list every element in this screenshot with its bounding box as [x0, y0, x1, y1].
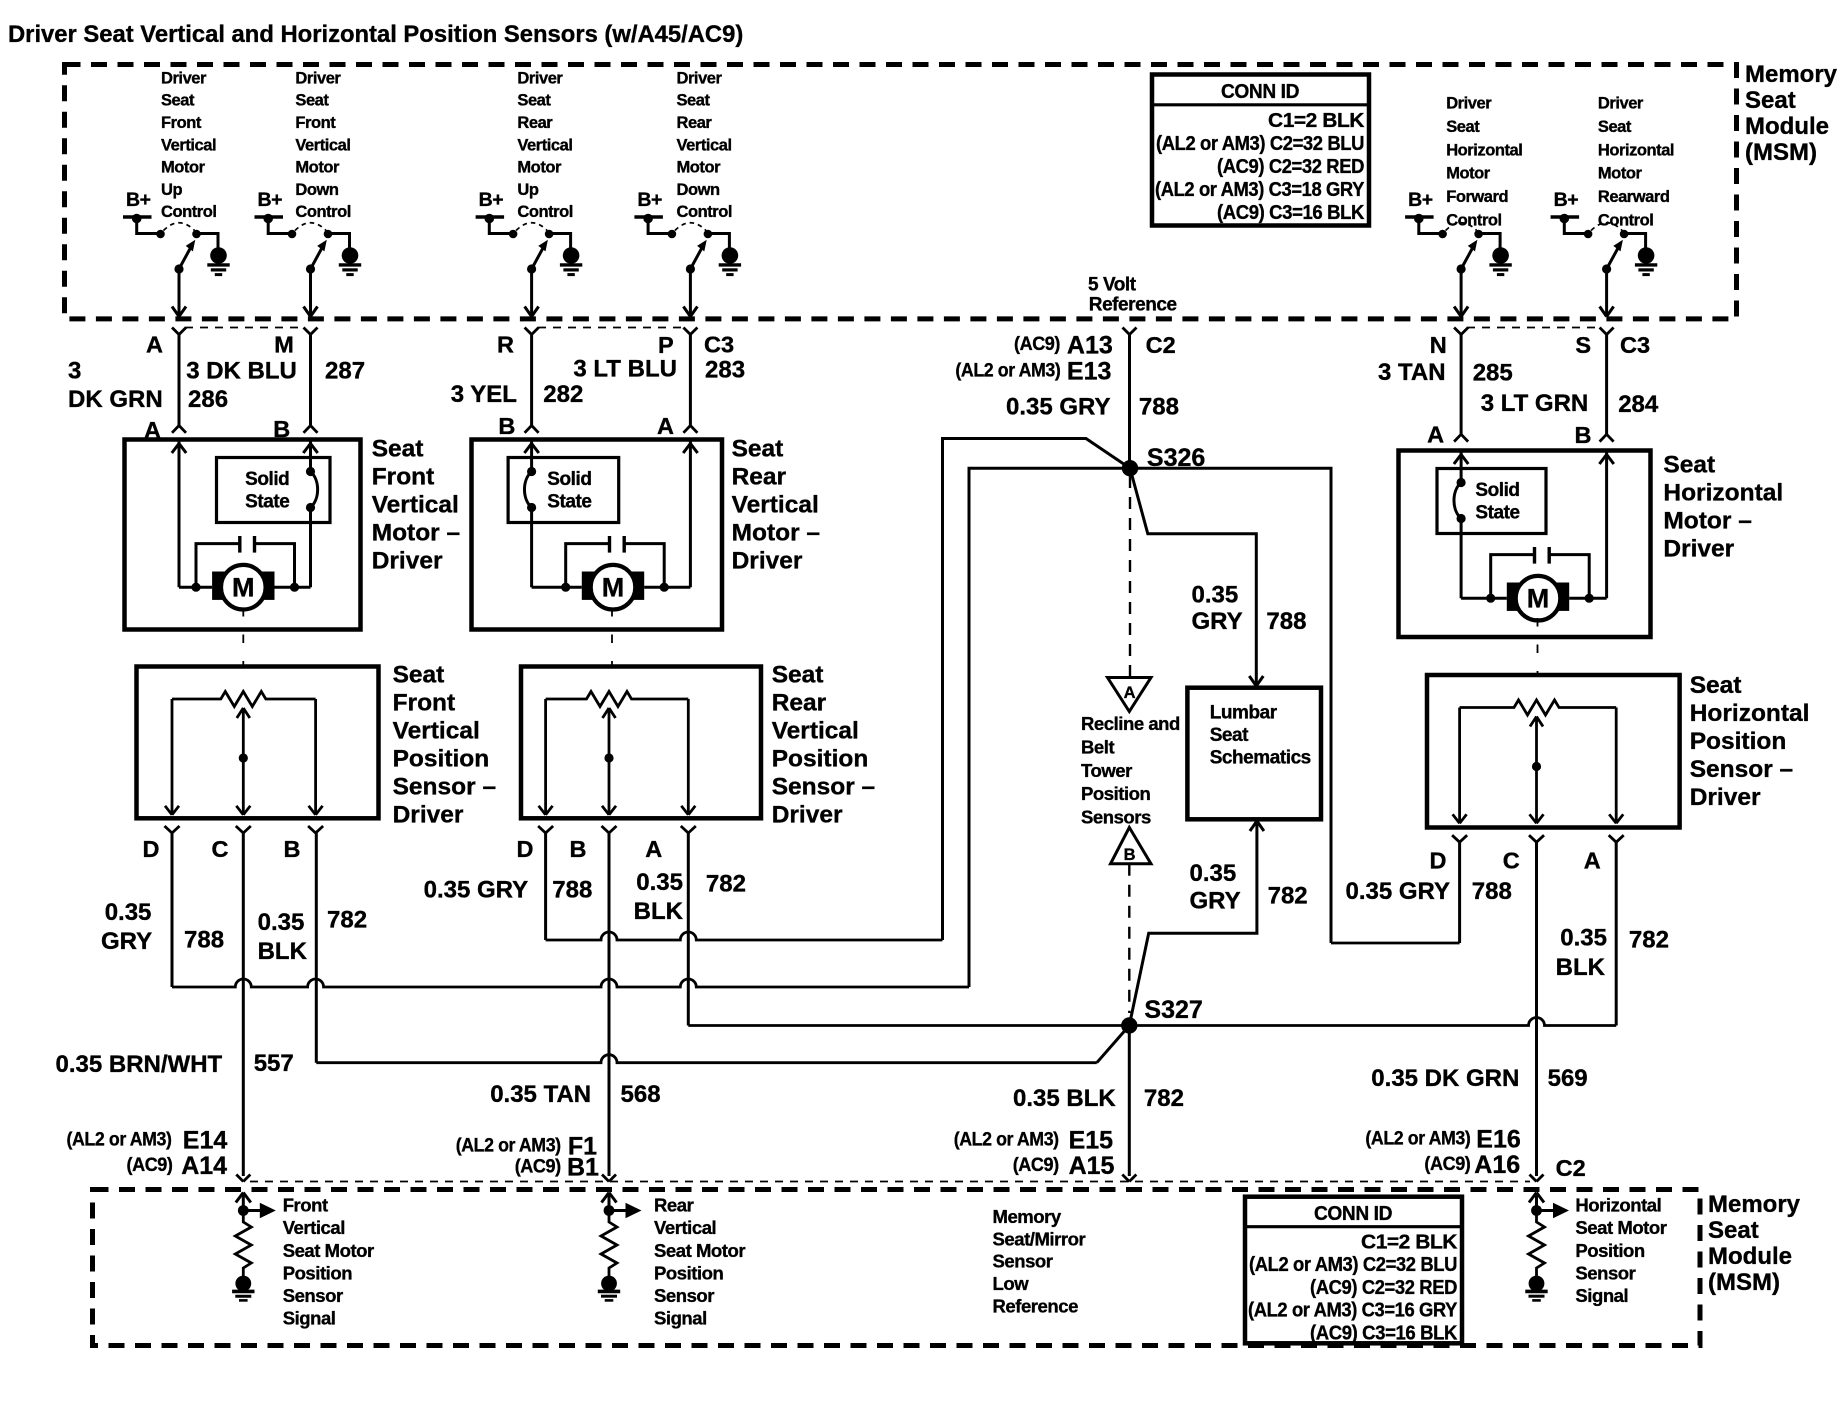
connector pin N at MSM [1430, 328, 1468, 359]
svg-text:Up: Up [517, 181, 538, 199]
svg-text:A: A [1124, 684, 1136, 702]
dashed throw arc (driver seat horizontal motor rearward control) [1591, 223, 1622, 231]
wire: sensor low lead (Seat Front Vertical Position Sensor - Driver) [309, 699, 323, 815]
sensor connector pin B (x=315.6) [284, 826, 324, 862]
svg-text:Seat Motor: Seat Motor [283, 1240, 374, 1261]
svg-text:Solid: Solid [547, 469, 591, 490]
connector face dashed line C3 (left pair) [185, 327, 304, 329]
svg-text:0.35 BLK: 0.35 BLK [1013, 1085, 1116, 1112]
B+ power terminal (driver seat front vertical motor down control) [255, 189, 284, 223]
label column for switch 3 [517, 69, 573, 221]
svg-text:Belt: Belt [1081, 737, 1114, 758]
wire: BLK 782 S327 to front vertical sensor pin B [316, 833, 1129, 1063]
value label: 0.35 BLK 782 (to MSM) [1013, 1085, 1184, 1112]
value label: 0.35 GRY 788 (lumbar feed) [1192, 582, 1307, 635]
pin id labels (AL2 or AM3) E16 / (AC9) A16 / C2 [1365, 1126, 1585, 1182]
value label: 0.35 TAN 568 [490, 1081, 660, 1108]
svg-text:0.35 GRY: 0.35 GRY [424, 877, 528, 904]
sensor connector pin D (x=545.6) [517, 826, 554, 862]
svg-text:Vertical: Vertical [372, 492, 459, 519]
value label: 0.35 GRY 788 (5V feed) [1006, 394, 1179, 421]
svg-text:Sensor: Sensor [654, 1285, 714, 1306]
ground symbol (driver seat rear vertical motor up control) [560, 247, 582, 274]
svg-text:Motor: Motor [677, 159, 722, 177]
value label: 0.35 BLK 782 (rear vertical sensor) [634, 869, 746, 925]
svg-text:Vertical: Vertical [283, 1217, 345, 1238]
svg-text:Control: Control [295, 203, 351, 221]
svg-text:Signal: Signal [1575, 1285, 1628, 1306]
connector face dashed line C3 (horizontal pair) [1467, 327, 1600, 329]
label: Horizontal Seat Motor Position Sensor Signal [1575, 1195, 1666, 1306]
svg-text:A: A [146, 332, 163, 358]
potentiometer (Seat Horizontal Position Sensor - Driver) [1460, 700, 1617, 715]
svg-text:Rear: Rear [517, 114, 553, 132]
svg-text:Motor: Motor [517, 159, 562, 177]
svg-text:788: 788 [1139, 394, 1179, 421]
svg-text:(AC9) C2=32 RED: (AC9) C2=32 RED [1217, 155, 1364, 178]
label: 5 Volt Reference [1088, 274, 1177, 315]
solid state relay box (Seat Rear Vertical Motor - Driver) [508, 458, 619, 523]
svg-text:Driver: Driver [732, 548, 803, 575]
switch contact 1 (driver seat rear vertical motor down control) [668, 230, 677, 239]
svg-text:Rearward: Rearward [1598, 188, 1670, 206]
svg-text:Horizontal: Horizontal [1690, 700, 1810, 727]
svg-text:Motor: Motor [1598, 165, 1643, 183]
solid state relay box (Seat Horizontal Motor - Driver) [1437, 469, 1546, 534]
svg-text:0.35: 0.35 [1560, 925, 1607, 952]
internal sensor input with pull resistor and ground (Rear Vertical Seat Motor Position Sensor Signal) [598, 1193, 642, 1301]
svg-text:Front: Front [283, 1195, 328, 1216]
svg-text:A: A [657, 413, 674, 439]
svg-text:E16: E16 [1476, 1126, 1520, 1154]
svg-text:Seat: Seat [161, 92, 195, 110]
label: Memory Seat Module (MSM) top [1745, 61, 1838, 166]
svg-text:Position: Position [654, 1262, 724, 1283]
svg-text:C2: C2 [1556, 1155, 1586, 1181]
solid state switch contacts (Seat Rear Vertical Motor - Driver) [524, 467, 536, 512]
svg-text:Seat: Seat [372, 436, 424, 463]
ground symbol (driver seat front vertical motor down control) [339, 247, 361, 274]
off-page triangle B [1111, 827, 1152, 864]
wire: GRY 788 branch to rear vertical sensor pin D [546, 439, 1130, 941]
svg-text:Sensor –: Sensor – [1690, 756, 1794, 783]
sensor connector pin D (x=1459.6) [1430, 835, 1468, 873]
wire: B+ feed to switch contact (driver seat rear vertical motor down control) [648, 219, 672, 234]
svg-text:Sensor –: Sensor – [772, 774, 876, 801]
switch contact 1 (driver seat front vertical motor down control) [288, 230, 297, 239]
svg-text:M: M [1527, 584, 1550, 614]
svg-text:3 DK BLU: 3 DK BLU [186, 358, 297, 385]
wire: B+ feed to switch contact (driver seat front vertical motor down control) [268, 219, 292, 234]
svg-text:A15: A15 [1069, 1152, 1115, 1180]
switch: driver seat front vertical motor down control [255, 189, 362, 317]
connector face dashed line (bottom MSM) [250, 1181, 1530, 1183]
svg-text:Seat: Seat [1598, 118, 1632, 136]
sensor connector pin C (x=1536.5) [1503, 835, 1544, 873]
pin id labels (AL2 or AM3) F1 / (AC9) B1 [456, 1133, 599, 1182]
svg-text:Reference: Reference [993, 1296, 1079, 1317]
svg-text:Driver: Driver [1446, 95, 1492, 113]
motor assembly box: Seat Horizontal Motor - Driver [1399, 451, 1651, 638]
value label: 0.35 GRY 788 (horizontal sensor) [1346, 878, 1512, 905]
svg-text:D: D [1430, 848, 1447, 874]
svg-text:Sensor –: Sensor – [393, 774, 497, 801]
svg-text:Seat: Seat [1663, 452, 1715, 479]
svg-text:284: 284 [1618, 391, 1659, 418]
svg-text:782: 782 [706, 871, 746, 898]
motor assembly box: Seat Rear Vertical Motor - Driver [472, 440, 723, 630]
dashed throw arc (driver seat front vertical motor up control) [164, 223, 195, 231]
wire: B+ feed to switch contact (driver seat rear vertical motor up control) [489, 219, 513, 234]
wire: B+ feed to switch contact (driver seat front vertical motor up control) [137, 219, 161, 234]
svg-text:788: 788 [1266, 608, 1306, 635]
dashed throw arc (driver seat horizontal motor forward control) [1446, 223, 1477, 231]
svg-text:Seat: Seat [1708, 1217, 1759, 1244]
potentiometer (Seat Rear Vertical Position Sensor - Driver) [546, 692, 689, 707]
wire 3 LT GRN 284 [1600, 335, 1614, 442]
svg-text:C1=2 BLK: C1=2 BLK [1361, 1231, 1458, 1254]
wire: sensor 5V lead (Seat Front Vertical Position Sensor - Driver) [165, 699, 179, 815]
svg-text:Seat Motor: Seat Motor [1575, 1217, 1666, 1238]
svg-text:State: State [1475, 502, 1519, 523]
module box: Memory Seat Module (MSM), top [65, 65, 1737, 319]
svg-text:Control: Control [1446, 212, 1502, 230]
motor M with brushes (Seat Front Vertical Motor - Driver) [212, 565, 274, 610]
svg-text:Motor: Motor [1446, 165, 1491, 183]
svg-text:(AL2 or AM3): (AL2 or AM3) [954, 1129, 1059, 1151]
svg-text:A: A [1584, 848, 1601, 874]
wire: sensor low lead (Seat Rear Vertical Position Sensor - Driver) [681, 699, 695, 815]
connector pin C2 at MSM (5V ref) [1123, 328, 1176, 358]
svg-text:Vertical: Vertical [677, 136, 732, 154]
label: Seat Horizontal Motor - Driver [1663, 452, 1783, 563]
svg-text:Rear: Rear [772, 690, 827, 717]
value label: 0.35 BLK 782 (horizontal sensor) [1556, 925, 1669, 981]
svg-text:Seat: Seat [732, 436, 784, 463]
wire 3 DK BLU 287 [304, 335, 318, 433]
svg-text:(AL2 or AM3): (AL2 or AM3) [1365, 1128, 1470, 1150]
position sensor box: Seat Horizontal Position Sensor - Driver [1427, 675, 1680, 828]
svg-text:(AC9) C3=16 BLK: (AC9) C3=16 BLK [1217, 201, 1365, 224]
B+ power terminal (driver seat rear vertical motor up control) [476, 189, 505, 223]
svg-text:Driver: Driver [1663, 536, 1734, 563]
wire: switch output to module edge (driver seat horizontal motor forward control) [1454, 269, 1468, 317]
svg-text:Vertical: Vertical [295, 136, 350, 154]
switch blade with arrow (driver seat front vertical motor down control) [306, 240, 327, 274]
ground symbol (driver seat rear vertical motor down control) [719, 247, 741, 274]
wire: pin B lead inside motor box (Seat Horizontal Motor - Driver) [1569, 452, 1614, 598]
svg-text:A14: A14 [181, 1152, 227, 1180]
wiper signal lead with junction dot (Seat Front Vertical Position Sensor - Driver) [236, 708, 250, 815]
svg-text:Vertical: Vertical [732, 492, 819, 519]
junction dots on motor leads (Seat Horizontal Motor - Driver) [1486, 594, 1594, 603]
svg-text:Front: Front [393, 690, 456, 717]
wire: contact 2 to ground (driver seat rear vertical motor down control) [708, 234, 730, 249]
value label: 0.35 DK GRN 569 [1371, 1065, 1587, 1092]
svg-text:Down: Down [677, 181, 720, 199]
wire: sensor 5V lead (Seat Horizontal Position Sensor - Driver) [1453, 708, 1467, 824]
label column for switch 1 [161, 69, 217, 221]
svg-text:Low: Low [993, 1273, 1030, 1294]
svg-text:(MSM): (MSM) [1745, 139, 1817, 166]
svg-text:B+: B+ [1408, 189, 1433, 211]
switch blade with arrow (driver seat horizontal motor rearward control) [1602, 240, 1623, 274]
svg-text:B+: B+ [637, 189, 662, 211]
switch: driver seat rear vertical motor down control [634, 189, 741, 317]
junction dots on motor leads (Seat Rear Vertical Motor - Driver) [561, 583, 669, 592]
wire: sensor low lead (Seat Horizontal Position Sensor - Driver) [1609, 708, 1623, 824]
internal sensor input with pull resistor and ground (Front Vertical Seat Motor Position Sensor Signal) [232, 1193, 276, 1301]
svg-text:Motor: Motor [161, 159, 206, 177]
connector pin P at MSM [658, 328, 697, 359]
label column for switch 4 [677, 69, 733, 221]
switch contact 1 (driver seat rear vertical motor up control) [509, 230, 518, 239]
switch blade with arrow (driver seat horizontal motor forward control) [1457, 240, 1478, 274]
svg-text:(AL2 or AM3) C3=16 GRY: (AL2 or AM3) C3=16 GRY [1248, 1299, 1458, 1322]
value label: 0.35 GRY 782 (lumbar low ref) [1190, 860, 1308, 914]
svg-text:782: 782 [1144, 1085, 1184, 1112]
svg-text:Sensor: Sensor [1575, 1262, 1635, 1283]
connector pin E15/A15 at bottom MSM [1122, 1175, 1129, 1182]
label column for switch 5 [1446, 95, 1522, 230]
switch blade with arrow (driver seat rear vertical motor up control) [527, 240, 548, 274]
svg-text:Sensor: Sensor [283, 1285, 343, 1306]
svg-text:D: D [143, 836, 160, 862]
value label: 3 DK GRN (circuit 286) [68, 358, 163, 413]
svg-text:Rear: Rear [677, 114, 713, 132]
svg-text:Vertical: Vertical [161, 136, 216, 154]
svg-text:0.35 DK GRN: 0.35 DK GRN [1371, 1065, 1519, 1092]
svg-text:Driver: Driver [1690, 784, 1761, 811]
svg-text:5 Volt: 5 Volt [1088, 274, 1137, 295]
svg-text:A16: A16 [1474, 1151, 1520, 1179]
splice S326 [1122, 444, 1205, 476]
svg-text:3 LT GRN: 3 LT GRN [1481, 390, 1589, 417]
wiper signal lead with junction dot (Seat Rear Vertical Position Sensor - Driver) [602, 708, 616, 815]
svg-text:282: 282 [543, 381, 583, 408]
svg-text:(AL2 or AM3) C2=32 BLU: (AL2 or AM3) C2=32 BLU [1156, 132, 1364, 155]
svg-text:0.35 GRY: 0.35 GRY [1346, 878, 1451, 905]
svg-text:Seat: Seat [772, 662, 824, 689]
switch: driver seat rear vertical motor up control [476, 189, 583, 317]
svg-text:Seat: Seat [1446, 118, 1480, 136]
svg-text:287: 287 [325, 358, 365, 385]
svg-text:Vertical: Vertical [517, 136, 572, 154]
wire: B+ feed to switch contact (driver seat horizontal motor forward control) [1419, 219, 1443, 234]
svg-text:788: 788 [1472, 878, 1512, 905]
svg-text:Driver: Driver [517, 69, 563, 87]
svg-text:Seat: Seat [393, 662, 445, 689]
svg-text:A: A [1427, 421, 1444, 447]
svg-text:Front: Front [295, 114, 336, 132]
svg-text:Reference: Reference [1089, 295, 1177, 316]
svg-text:Control: Control [677, 203, 733, 221]
svg-text:C1=2 BLK: C1=2 BLK [1268, 109, 1365, 132]
svg-text:Schematics: Schematics [1210, 748, 1311, 769]
svg-text:0.35 GRY: 0.35 GRY [1006, 394, 1111, 421]
wire: pin A lead inside motor box (Seat Horizontal Motor - Driver) [1454, 452, 1507, 598]
module box: Memory Seat Module (MSM), bottom [93, 1190, 1701, 1346]
svg-text:782: 782 [1268, 883, 1308, 910]
svg-text:Rear: Rear [654, 1195, 694, 1216]
wire: 0.35 BRN/WHT 557 front vertical position signal [242, 833, 245, 1176]
label column for switch 6 [1598, 95, 1674, 230]
svg-text:Seat: Seat [517, 92, 551, 110]
svg-text:Up: Up [161, 181, 182, 199]
svg-text:Vertical: Vertical [654, 1217, 716, 1238]
svg-text:C: C [212, 836, 229, 862]
wire: switch output to module edge (driver seat horizontal motor rearward control) [1600, 269, 1614, 317]
svg-text:Driver: Driver [372, 548, 443, 575]
svg-text:C2: C2 [1146, 332, 1176, 358]
svg-text:568: 568 [621, 1081, 661, 1108]
position sensor box: Seat Front Vertical Position Sensor - Driver [137, 667, 379, 819]
B+ power terminal (driver seat front vertical motor up control) [123, 189, 152, 223]
svg-text:(AC9): (AC9) [127, 1154, 173, 1176]
svg-text:Driver: Driver [295, 69, 341, 87]
wire: switch output to module edge (driver seat front vertical motor down control) [304, 269, 318, 317]
svg-text:E13: E13 [1067, 358, 1111, 386]
svg-text:(AC9) C3=16 BLK: (AC9) C3=16 BLK [1310, 1321, 1458, 1344]
svg-text:Vertical: Vertical [772, 718, 859, 745]
svg-text:(AL2 or AM3) C3=18 GRY: (AL2 or AM3) C3=18 GRY [1155, 178, 1365, 201]
svg-text:B1: B1 [567, 1154, 599, 1182]
svg-text:0.35: 0.35 [1190, 860, 1237, 887]
svg-text:B+: B+ [258, 189, 283, 211]
pin id labels (AC9) A13 / (AL2 or AM3) E13 [955, 331, 1112, 385]
motor M with brushes (Seat Horizontal Motor - Driver) [1507, 576, 1569, 621]
connector pin R at MSM [497, 328, 539, 358]
svg-text:0.35: 0.35 [636, 869, 683, 896]
svg-text:State: State [547, 491, 591, 512]
wire: BLK 782 S327 to horizontal sensor pin A [1129, 842, 1616, 1025]
B+ power terminal (driver seat horizontal motor rearward control) [1551, 189, 1580, 223]
svg-text:B+: B+ [479, 189, 504, 211]
wire: pin B lead inside motor box (Seat Rear Vertical Motor - Driver) [644, 441, 697, 587]
wire: sensor 5V lead (Seat Rear Vertical Position Sensor - Driver) [539, 699, 553, 815]
svg-text:(AL2 or AM3): (AL2 or AM3) [67, 1129, 172, 1151]
ground symbol (driver seat front vertical motor up control) [207, 247, 229, 274]
label: Memory Seat Module (MSM) bottom [1708, 1191, 1801, 1296]
svg-text:(AL2 or AM3): (AL2 or AM3) [456, 1135, 561, 1157]
svg-text:Driver: Driver [677, 69, 723, 87]
svg-text:Driver: Driver [393, 802, 464, 829]
svg-text:M: M [602, 573, 625, 603]
off-page triangle A [1108, 678, 1152, 712]
svg-text:Memory: Memory [1708, 1191, 1801, 1218]
svg-text:Control: Control [1598, 212, 1654, 230]
svg-text:A13: A13 [1067, 331, 1113, 359]
svg-text:R: R [497, 332, 514, 358]
svg-text:Horizontal: Horizontal [1446, 141, 1522, 159]
wire: contact 2 to ground (driver seat horizontal motor forward control) [1479, 234, 1501, 249]
svg-text:Driver: Driver [772, 802, 843, 829]
svg-text:(MSM): (MSM) [1708, 1269, 1780, 1296]
svg-text:(AL2 or AM3) C2=32 BLU: (AL2 or AM3) C2=32 BLU [1249, 1253, 1457, 1276]
svg-text:Down: Down [295, 181, 338, 199]
svg-text:Position: Position [283, 1262, 353, 1283]
svg-text:286: 286 [188, 386, 228, 413]
svg-text:Rear: Rear [732, 464, 787, 491]
wire: 0.35 DK GRN 569 horizontal position signal [1535, 842, 1538, 1176]
svg-text:Sensors: Sensors [1081, 806, 1151, 827]
svg-text:Memory: Memory [993, 1206, 1062, 1227]
label: Seat Rear Vertical Position Sensor - Driver [772, 662, 876, 829]
label: Seat Rear Vertical Motor - Driver [732, 436, 820, 575]
sensor connector pin C (x=243.3) [212, 826, 251, 862]
svg-text:Memory: Memory [1745, 61, 1838, 88]
label: Recline and Belt Tower Position Sensors [1081, 713, 1180, 827]
svg-text:Driver: Driver [161, 69, 207, 87]
splice S327 [1121, 996, 1203, 1034]
svg-text:GRY: GRY [101, 928, 152, 955]
svg-text:(AL2 or AM3): (AL2 or AM3) [955, 359, 1060, 381]
sensor connector pin A (x=688.3) [645, 826, 696, 862]
svg-text:Position: Position [772, 746, 869, 773]
svg-text:Tower: Tower [1081, 760, 1132, 781]
solid state switch contacts (Seat Front Vertical Motor - Driver) [306, 467, 318, 512]
wire: B+ feed to switch contact (driver seat horizontal motor rearward control) [1564, 219, 1588, 234]
sensor connector pin B (x=609) [570, 826, 617, 862]
connector pin M at MSM [274, 328, 317, 358]
wire: contact 2 to ground (driver seat front vertical motor down control) [328, 234, 350, 249]
sensor connector pin A (x=1616.2) [1584, 835, 1624, 873]
svg-text:283: 283 [705, 357, 745, 384]
switch: driver seat front vertical motor up control [123, 189, 230, 317]
svg-text:3 LT BLU: 3 LT BLU [573, 356, 677, 383]
svg-text:Seat Motor: Seat Motor [654, 1240, 745, 1261]
svg-text:Solid: Solid [1475, 480, 1519, 501]
sensor connector pin D (x=172) [143, 826, 180, 862]
dashed throw arc (driver seat rear vertical motor down control) [675, 223, 706, 231]
svg-text:569: 569 [1548, 1065, 1588, 1092]
svg-text:Module: Module [1708, 1243, 1792, 1270]
wire: switch output to module edge (driver seat front vertical motor up control) [172, 269, 186, 317]
wire: BLK 782 from S327 down to MSM pin E15/A15 [1128, 1026, 1131, 1177]
wire 3 DK GRN 286 [172, 335, 186, 433]
wire: GRY 788 branch to horizontal sensor pin D [1130, 468, 1460, 943]
svg-text:Sensor: Sensor [993, 1251, 1053, 1272]
svg-text:Horizontal: Horizontal [1575, 1195, 1661, 1216]
dashed mechanical link motor-sensor (front vertical) [242, 608, 244, 667]
svg-text:0.35: 0.35 [1192, 582, 1239, 609]
label: Rear Vertical Seat Motor Position Sensor Signal [654, 1195, 745, 1329]
connector pin E14/A14 at bottom MSM [236, 1175, 243, 1182]
dashed wire: BLK 782 from triangle B to S327 [1128, 864, 1130, 1013]
svg-text:Position: Position [1690, 728, 1787, 755]
label: Seat Horizontal Position Sensor - Driver [1690, 672, 1810, 811]
pin id labels (AL2 or AM3) E15 / (AC9) A15 [954, 1127, 1115, 1181]
switch: driver seat horizontal motor rearward control [1551, 189, 1658, 317]
svg-text:Seat: Seat [1745, 87, 1796, 114]
svg-text:557: 557 [254, 1050, 294, 1077]
svg-text:Motor –: Motor – [372, 520, 460, 547]
svg-text:M: M [274, 332, 294, 358]
svg-text:(AC9): (AC9) [1424, 1153, 1470, 1175]
svg-text:285: 285 [1473, 360, 1513, 387]
svg-text:N: N [1430, 332, 1447, 358]
wire: pin A lead inside motor box (Seat Front Vertical Motor - Driver) [172, 441, 212, 587]
svg-text:Lumbar: Lumbar [1210, 703, 1278, 724]
svg-text:A: A [645, 836, 662, 862]
switch contact 1 (driver seat horizontal motor rearward control) [1584, 230, 1593, 239]
svg-text:Driver Seat Vertical and Horiz: Driver Seat Vertical and Horizontal Posi… [8, 21, 743, 48]
svg-text:CONN ID: CONN ID [1221, 80, 1299, 103]
switch contact 2 (driver seat front vertical motor down control) [324, 230, 333, 239]
svg-text:BLK: BLK [634, 898, 684, 925]
connector ID table (top) [1152, 75, 1369, 226]
switch contact 1 (driver seat front vertical motor up control) [156, 230, 165, 239]
